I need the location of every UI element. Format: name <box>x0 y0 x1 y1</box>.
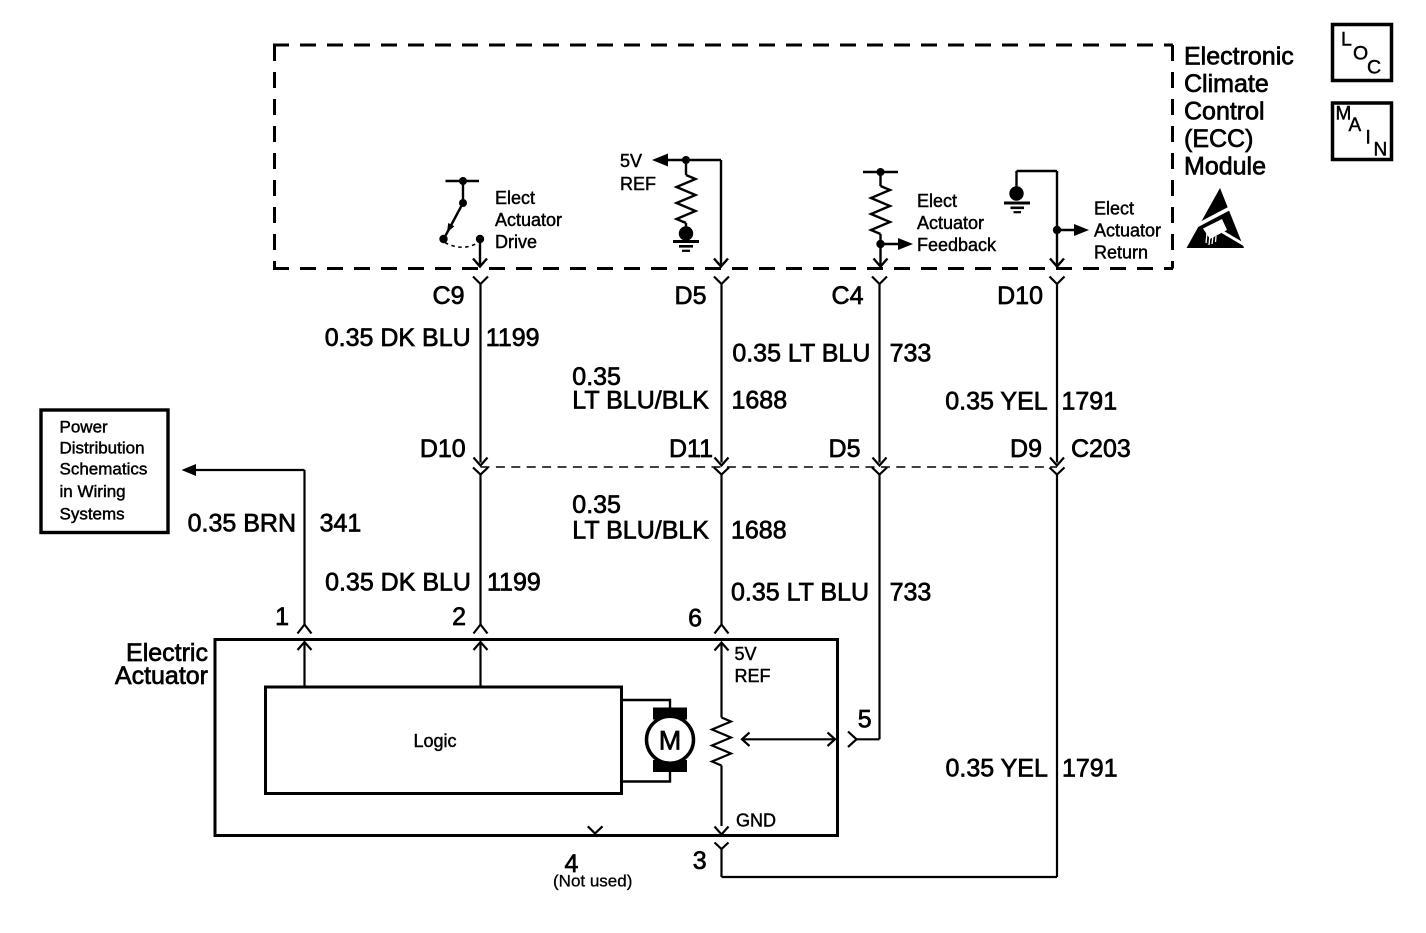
connector symbol at actuator pin 6 <box>715 625 729 634</box>
value label 0.35 LT BLU/BLK 1688 upper <box>572 363 787 415</box>
svg-text:1688: 1688 <box>731 517 787 545</box>
svg-text:Actuator: Actuator <box>917 213 984 233</box>
connector symbol at ECC pin C4 <box>872 277 887 285</box>
ECC module dashed boundary box <box>273 45 1173 269</box>
wire: pin 6 with arrow into actuator <box>715 643 729 718</box>
in-line connector C203 dashed line <box>481 466 1058 468</box>
svg-text:D11: D11 <box>669 435 713 463</box>
connector symbol at C203 D10 <box>473 468 488 475</box>
motor M1 <box>647 708 694 773</box>
connector symbol at actuator pin 2 <box>474 625 488 634</box>
svg-text:O: O <box>1353 43 1368 65</box>
label: Elect Actuator Return <box>1094 199 1161 263</box>
connector symbol at ECC pin D5 <box>714 277 729 285</box>
wire: C203 D11 to actuator pin 6 <box>720 475 722 625</box>
wire: potentiometer to GND with arrow <box>715 766 729 835</box>
wire: C4 to C203 D5 with arrow <box>873 284 887 466</box>
svg-text:Feedback: Feedback <box>917 235 997 255</box>
svg-text:A: A <box>1349 115 1362 136</box>
svg-text:GND: GND <box>736 811 776 831</box>
svg-text:Schematics: Schematics <box>60 460 148 479</box>
arrow to Elect Actuator Feedback <box>881 243 900 245</box>
svg-text:C203: C203 <box>1071 435 1131 463</box>
Electric Actuator box <box>215 640 838 836</box>
ground G1 <box>673 226 699 251</box>
svg-text:Return: Return <box>1094 243 1148 263</box>
Power Distribution reference box <box>41 410 168 533</box>
svg-text:C4: C4 <box>832 282 864 310</box>
svg-text:in Wiring: in Wiring <box>60 482 126 501</box>
wire: actuator pin 1 to power distribution <box>195 470 305 625</box>
svg-text:5V: 5V <box>620 151 642 171</box>
svg-text:1199: 1199 <box>487 569 541 597</box>
junction node return tap <box>1053 226 1061 234</box>
svg-text:L: L <box>1341 29 1352 51</box>
wire: logic to motor top <box>622 700 671 708</box>
junction node feedback tap <box>876 240 884 248</box>
potentiometer wiper double arrow <box>742 733 835 747</box>
svg-text:5V: 5V <box>735 644 757 664</box>
svg-text:LT BLU/BLK: LT BLU/BLK <box>572 387 709 415</box>
svg-text:D10: D10 <box>997 282 1043 310</box>
resistor R2 Elect Actuator Feedback <box>863 168 898 234</box>
svg-text:LT BLU/BLK: LT BLU/BLK <box>572 517 709 545</box>
svg-text:3: 3 <box>693 847 707 875</box>
svg-text:Elect: Elect <box>1094 199 1134 219</box>
svg-text:Actuator: Actuator <box>115 662 208 690</box>
value label 0.35 DK BLU 1199 lower <box>325 569 541 597</box>
svg-text:0.35 YEL: 0.35 YEL <box>945 755 1048 783</box>
value label 0.35 LT BLU 733 lower <box>731 579 931 607</box>
wire: switch to ECC pin C9 with arrow <box>473 241 487 267</box>
svg-text:Module: Module <box>1184 153 1266 181</box>
wire: pin 1 to logic with arrow <box>298 642 312 687</box>
svg-text:Elect: Elect <box>495 188 535 208</box>
wire: pin 5 stub <box>857 738 880 740</box>
svg-text:1: 1 <box>275 603 289 631</box>
svg-text:1688: 1688 <box>732 387 788 415</box>
connector symbol at actuator pin 5 <box>848 732 857 748</box>
wire: D10 to C203 D9 with arrow <box>1050 284 1064 466</box>
svg-text:Actuator: Actuator <box>495 210 562 230</box>
svg-text:Control: Control <box>1184 98 1265 126</box>
wire: 5V REF rail <box>666 159 721 161</box>
net label 5V REF inside actuator <box>735 644 771 686</box>
connector symbol at actuator pin 4 not used <box>588 826 603 833</box>
resistor R1 pull-up <box>677 160 696 227</box>
LOC reference tag box <box>1333 25 1392 81</box>
svg-text:Logic: Logic <box>413 731 456 751</box>
connector symbol at actuator pin 1 <box>298 625 312 634</box>
wire: C203 D5 to actuator pin 5 <box>878 475 880 740</box>
value label 0.35 LT BLU/BLK 1688 lower <box>572 491 786 545</box>
wire: ground G2 to ECC pin D10 with arrow <box>1017 171 1065 267</box>
svg-text:5: 5 <box>858 706 872 734</box>
svg-text:C: C <box>1367 57 1381 79</box>
svg-text:D10: D10 <box>420 435 466 463</box>
wire: pin 2 to logic with arrow <box>474 642 488 687</box>
connector symbol at ECC pin C9 <box>473 277 488 285</box>
wire: C203 D10 to actuator pin 2 <box>479 475 481 625</box>
svg-text:D9: D9 <box>1010 435 1042 463</box>
connector symbol at C203 D11 <box>714 468 729 475</box>
Logic block U1 <box>266 687 622 794</box>
label: Electric Actuator <box>115 639 208 690</box>
wire: C9 to C203 D10 with arrow <box>474 284 488 466</box>
svg-text:341: 341 <box>320 510 362 538</box>
svg-text:C9: C9 <box>433 282 465 310</box>
wire: logic to motor bottom <box>622 772 671 782</box>
label: Elect Actuator Feedback <box>917 191 997 255</box>
svg-text:733: 733 <box>890 340 932 368</box>
svg-text:I: I <box>1366 128 1371 149</box>
arrow into power distribution box <box>182 464 197 476</box>
arrow to Elect Actuator Return <box>1057 229 1075 231</box>
wire: D5 to C203 D11 with arrow <box>715 284 729 466</box>
value label 0.35 YEL 1791 upper <box>945 388 1117 416</box>
svg-text:Systems: Systems <box>60 505 125 524</box>
value label 0.35 BRN 341 <box>188 510 362 538</box>
svg-text:M: M <box>659 726 682 756</box>
connector symbol at C203 D9 <box>1050 468 1065 475</box>
svg-text:D5: D5 <box>829 435 861 463</box>
wire: feedback node to ECC pin C4 with arrow <box>874 234 888 267</box>
svg-text:REF: REF <box>735 666 771 686</box>
label: Elect Actuator Drive <box>495 188 562 252</box>
label: Electronic Climate Control (ECC) Module <box>1184 43 1294 181</box>
wire: C203 D9 to actuator pin 3 <box>722 475 1058 878</box>
svg-text:0.35 DK BLU: 0.35 DK BLU <box>325 569 471 597</box>
svg-text:Climate: Climate <box>1184 70 1269 98</box>
svg-text:0.35 DK BLU: 0.35 DK BLU <box>325 324 471 352</box>
svg-text:N: N <box>1374 140 1388 161</box>
svg-text:Actuator: Actuator <box>1094 221 1161 241</box>
value label 0.35 DK BLU 1199 upper <box>325 324 540 352</box>
svg-text:1199: 1199 <box>486 324 540 352</box>
svg-text:0.35: 0.35 <box>572 491 621 519</box>
svg-text:733: 733 <box>890 579 932 607</box>
MAIN reference tag box <box>1333 103 1392 161</box>
svg-text:6: 6 <box>688 605 702 633</box>
connector symbol at C203 D5 <box>872 468 887 475</box>
connector symbol at ECC pin D10 <box>1050 277 1065 285</box>
potentiometer R3 <box>712 718 731 766</box>
svg-text:Electronic: Electronic <box>1184 43 1294 71</box>
svg-text:(ECC): (ECC) <box>1184 125 1253 153</box>
svg-text:Drive: Drive <box>495 232 537 252</box>
svg-text:0.35 BRN: 0.35 BRN <box>188 510 296 538</box>
ground G2 return <box>1004 186 1030 212</box>
svg-text:1791: 1791 <box>1062 755 1118 783</box>
svg-text:Distribution: Distribution <box>60 439 145 458</box>
svg-text:(Not used): (Not used) <box>553 872 632 891</box>
junction node on 5V REF rail <box>682 156 690 164</box>
svg-text:D5: D5 <box>675 282 707 310</box>
value label 0.35 LT BLU 733 upper <box>732 340 931 368</box>
svg-text:0.35 LT BLU: 0.35 LT BLU <box>732 340 870 368</box>
connector symbol at actuator pin 3 <box>715 843 729 850</box>
svg-text:Power: Power <box>60 418 109 437</box>
ESD sensitive device symbol <box>1187 188 1247 248</box>
svg-text:Elect: Elect <box>917 191 957 211</box>
net label 5V REF <box>620 151 656 194</box>
wire: 5V REF rail to ECC pin D5 with arrow <box>714 160 728 267</box>
svg-text:0.35 LT BLU: 0.35 LT BLU <box>731 579 869 607</box>
switch S1 Elect Actuator Drive <box>439 177 484 247</box>
value label 0.35 YEL 1791 lower <box>945 755 1117 783</box>
svg-text:REF: REF <box>620 174 656 194</box>
svg-text:2: 2 <box>452 603 466 631</box>
svg-text:1791: 1791 <box>1062 388 1118 416</box>
svg-text:0.35 YEL: 0.35 YEL <box>945 388 1048 416</box>
arrow to 5V REF net <box>652 154 668 167</box>
